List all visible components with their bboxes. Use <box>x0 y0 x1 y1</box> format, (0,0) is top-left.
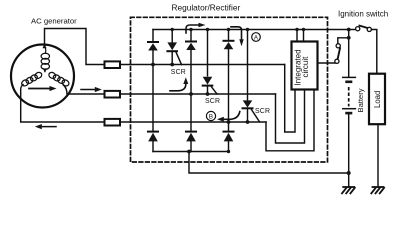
svg-text:SCR: SCR <box>171 69 186 76</box>
svg-text:circuit: circuit <box>301 56 310 78</box>
svg-text:AC generator: AC generator <box>31 17 77 26</box>
svg-text:SCR: SCR <box>205 98 220 105</box>
svg-text:Regulator/Rectifier: Regulator/Rectifier <box>172 2 241 12</box>
svg-text:Battery: Battery <box>356 88 365 112</box>
svg-text:Load: Load <box>373 91 382 108</box>
svg-text:SCR: SCR <box>255 108 270 115</box>
svg-text:B: B <box>209 114 213 121</box>
svg-text:Ignition switch: Ignition switch <box>338 10 388 19</box>
